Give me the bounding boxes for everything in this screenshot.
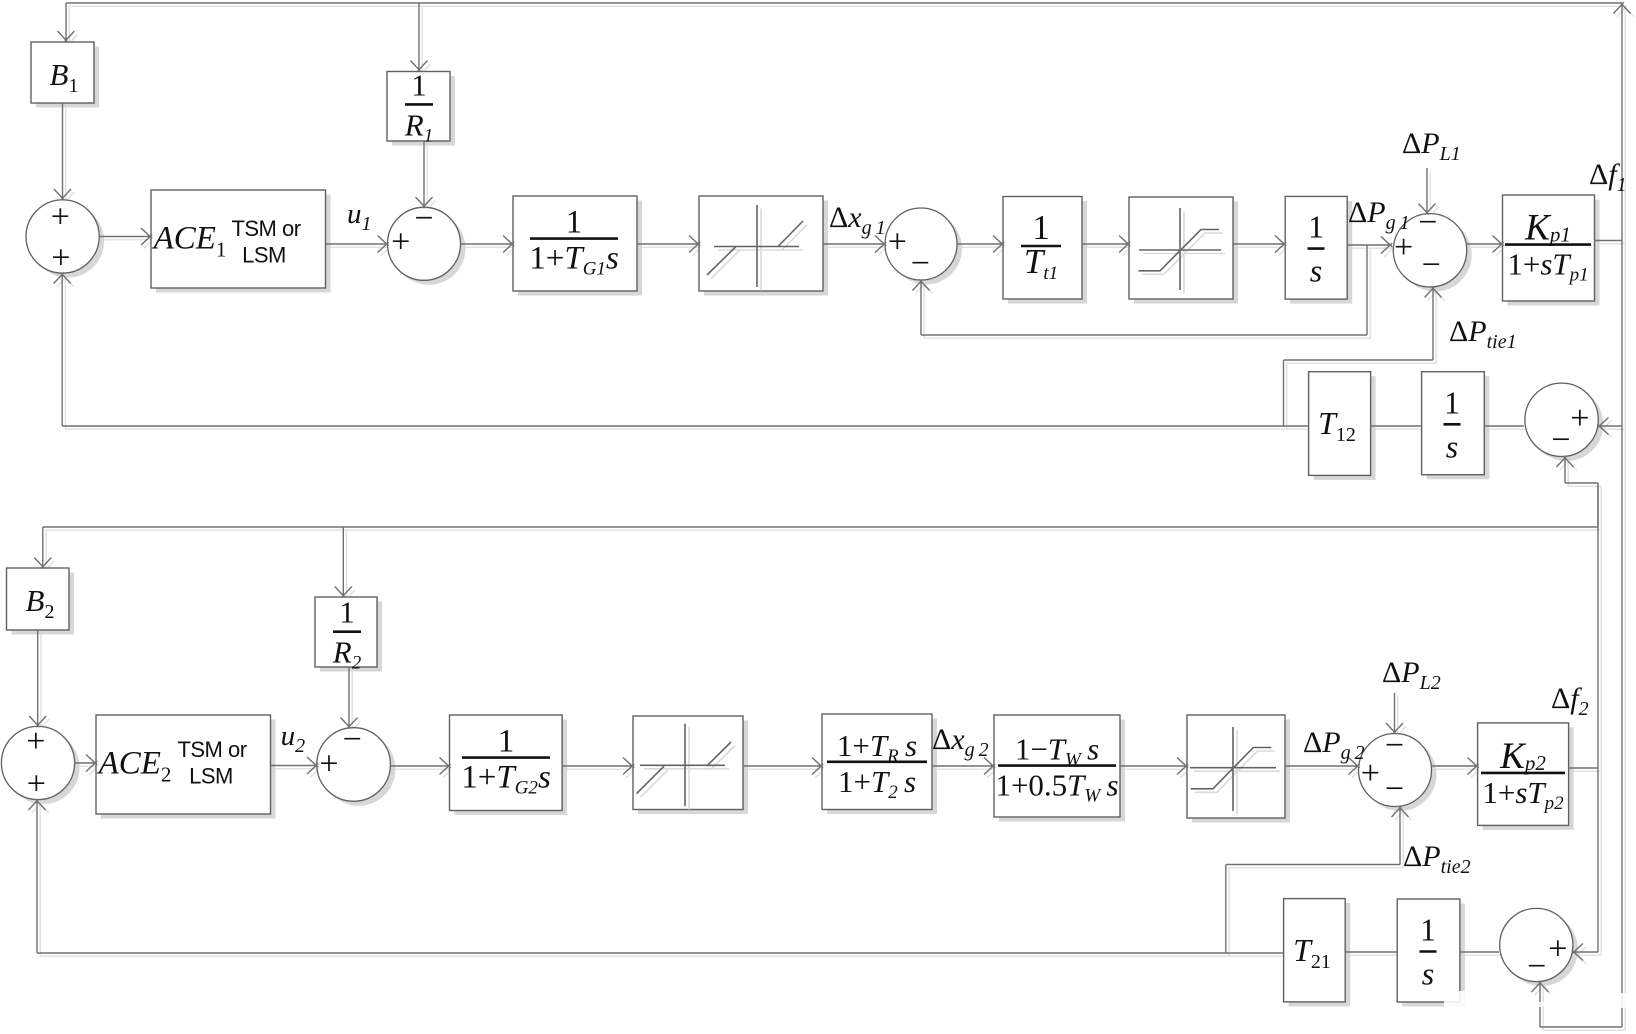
wire saturation2 to S8 (DPg2) — [1285, 758, 1360, 775]
wire S9 to integrator 1/s bottom — [1460, 951, 1499, 953]
wire deadzone to S3 (Dxg1) — [823, 236, 886, 253]
wire S3 to turbine 1/Tt1 — [957, 236, 1004, 253]
svg-text:−: − — [1551, 422, 1570, 459]
wire Df2 into S9 plus — [1572, 944, 1598, 961]
wire branch into 1/R2 — [335, 527, 352, 598]
block deadzone DZ2 — [633, 716, 743, 810]
svg-text:−: − — [911, 245, 930, 282]
svg-text:−: − — [343, 721, 362, 758]
wire governor2 to deadzone2 — [562, 758, 634, 775]
wire Df2 vertical right — [1597, 483, 1599, 952]
wire DPtie2 into S8 — [1226, 806, 1409, 953]
svg-text:Δxg 1: Δxg 1 — [829, 201, 886, 239]
block governor 1/(1+TG1s) — [513, 196, 637, 291]
svg-text:+: + — [27, 765, 46, 802]
wire DPL1 into S4 — [1419, 168, 1436, 215]
wire Df2 feedback top area2 — [43, 526, 1598, 528]
svg-text:ΔPg 2: ΔPg 2 — [1303, 726, 1365, 764]
svg-text:1: 1 — [498, 724, 515, 760]
wire ACE1 to S2 (u1) — [326, 236, 389, 253]
svg-text:1: 1 — [1420, 912, 1436, 948]
wire DPtie2 into S6 — [29, 799, 46, 953]
svg-text:1: 1 — [411, 67, 427, 102]
block 1/R1 — [387, 67, 450, 146]
svg-text:ΔPL2: ΔPL2 — [1382, 656, 1441, 694]
svg-text:s: s — [1310, 253, 1322, 289]
block B1 — [31, 42, 94, 103]
svg-text:Δf2: Δf2 — [1551, 682, 1589, 720]
summing junction S9 (Df2 - Df1) — [1500, 908, 1573, 985]
block ACE1 controller TSM or LSM — [151, 190, 326, 288]
summing junction S8 (DPg2 - DPL2 - DPtie2) — [1359, 727, 1432, 808]
wire S2 to governor block — [461, 236, 515, 253]
svg-text:1+TR​ s: 1+TR​ s — [837, 728, 917, 767]
wire ACE2 to S7 (u2) — [271, 757, 319, 774]
svg-text:−: − — [1385, 770, 1404, 807]
wire Kp2 output Df2 — [1569, 767, 1599, 769]
summing junction S7 (u2 - Df2/R2) — [317, 721, 391, 801]
svg-text:+: + — [1570, 400, 1589, 437]
svg-text:+: + — [26, 723, 45, 760]
block deadzone DZ1 — [699, 196, 823, 291]
wire DPL2 into S8 — [1386, 693, 1403, 734]
svg-text:1: 1 — [1308, 209, 1324, 245]
svg-text:Δf1: Δf1 — [1589, 158, 1627, 196]
wire Df1 into S5 plus — [1597, 418, 1622, 435]
wire integrator to S4 (DPg1) — [1347, 237, 1392, 254]
block ACE2 controller TSM or LSM — [96, 715, 271, 814]
wire B1 to sum S1 — [54, 103, 71, 200]
svg-text:−: − — [1422, 246, 1441, 283]
svg-text:u1: u1 — [347, 198, 372, 235]
wire S7 to governor2 — [391, 758, 451, 775]
wire 1/R1 to sum S2 — [416, 141, 433, 208]
svg-text:+: + — [51, 239, 70, 276]
wire Df1 vertical right — [1614, 2, 1631, 1027]
wire into B1 — [58, 3, 75, 42]
wire 1/Tt1 to saturation — [1082, 236, 1130, 253]
wire S1 to ACE1 — [99, 228, 152, 245]
svg-text:1: 1 — [339, 595, 355, 630]
watermark patches — [1444, 991, 1630, 1008]
svg-text:1−TW​ s: 1−TW​ s — [1015, 732, 1099, 771]
summing junction S3 (Dxg1 - rate fb) — [885, 208, 957, 282]
wire governor to deadzone — [637, 236, 700, 253]
wire T12 output to left — [62, 425, 1308, 427]
block B2 — [7, 568, 70, 630]
block integrator 1/s tie-line area1 — [1422, 372, 1485, 475]
wire S6 to ACE2 — [75, 755, 98, 772]
wire deadzone2 to reheat block — [743, 758, 823, 775]
wire S8 to Kp2 — [1432, 758, 1479, 775]
svg-text:+: + — [1548, 930, 1567, 967]
svg-text:1+TG1​s: 1+TG1​s — [529, 241, 619, 280]
wire branch into 1/R1 — [411, 3, 428, 72]
block integrator 1/s tie-line area2 — [1397, 899, 1460, 1002]
svg-text:ACE1: ACE1 — [152, 221, 227, 262]
wire Df2 into S5 minus — [1557, 456, 1599, 527]
svg-text:+: + — [888, 223, 907, 260]
block integrator 1/s area1 — [1285, 196, 1347, 299]
svg-text:1+0.5TW​ s: 1+0.5TW​ s — [995, 768, 1118, 807]
wire 1/s mid to T12 — [1371, 425, 1422, 427]
block T12 — [1309, 372, 1371, 476]
block hydro (1-TWs)/(1+0.5TWs) — [994, 715, 1120, 817]
summing junction S2 (u1 - Df1/R1) — [388, 200, 461, 281]
block 1/R2 — [315, 595, 377, 674]
svg-text:s: s — [1446, 428, 1458, 464]
svg-text:−: − — [1418, 204, 1437, 241]
block power system Kp2/(1+sTp2) — [1478, 723, 1569, 826]
wire DPtie1 into S1 — [54, 272, 71, 426]
svg-text:TSM or: TSM or — [177, 737, 246, 762]
svg-text:ΔPtie2: ΔPtie2 — [1403, 840, 1471, 878]
svg-text:1+T2​ s: 1+T2​ s — [838, 764, 916, 803]
svg-text:ΔPg 1: ΔPg 1 — [1348, 196, 1410, 234]
svg-text:−: − — [1527, 948, 1546, 985]
wire S4 to Kp1 — [1466, 236, 1504, 253]
wire DPtie1 into S4 — [1284, 286, 1442, 426]
svg-text:1: 1 — [1444, 384, 1460, 420]
summing junction S4 (DPg1 - DPL1 - DPtie1) — [1393, 204, 1466, 287]
svg-text:LSM: LSM — [242, 243, 286, 268]
svg-text:LSM: LSM — [189, 764, 233, 789]
svg-text:u2: u2 — [281, 720, 306, 757]
wire S5 to integrator 1/s mid — [1484, 425, 1524, 427]
block power system Kp1/(1+sTp1) — [1503, 195, 1595, 301]
summing junction S6 (B2*Df2 + DPtie2) — [1, 723, 74, 802]
wire T21 output to left — [37, 952, 1284, 954]
wire reheat to hydro block (Dxg2) — [932, 758, 995, 775]
wire 1/s bottom to T21 — [1345, 951, 1397, 953]
svg-text:ACE2: ACE2 — [97, 746, 172, 787]
svg-text:+: + — [391, 224, 410, 261]
wire 1/R2 to sum S7 — [341, 667, 358, 729]
svg-text:ΔPL1: ΔPL1 — [1402, 127, 1461, 165]
block T21 — [1284, 899, 1346, 1002]
svg-text:+: + — [51, 198, 70, 235]
svg-text:s: s — [1422, 956, 1434, 992]
svg-text:+: + — [319, 745, 338, 782]
svg-text:Δxg 2: Δxg 2 — [932, 723, 989, 761]
block saturation SAT1 — [1129, 197, 1233, 299]
wire saturation to integrator — [1233, 236, 1286, 253]
block reheat (1+TRs)/(1+T2s) — [822, 714, 932, 810]
wire Kp1 output Df1 — [1594, 240, 1622, 242]
svg-text:ΔPtie1: ΔPtie1 — [1449, 315, 1517, 353]
wire B2 to sum S6 — [29, 630, 46, 727]
wire into B2 — [34, 527, 51, 569]
block governor2 1/(1+TG2s) — [450, 715, 563, 811]
wire rate feedback to S3 — [913, 245, 1368, 335]
svg-text:TSM or: TSM or — [231, 216, 300, 241]
svg-text:1+TG2​s: 1+TG2​s — [461, 760, 551, 799]
svg-text:+: + — [1394, 229, 1413, 266]
wire Df1 feedback top — [66, 2, 1622, 4]
summing junction S1 (B1*Df1 + DPtie1) — [26, 198, 99, 276]
summing junction S5 (Df1 - Df2) — [1525, 383, 1598, 458]
wire hydro to saturation2 — [1120, 758, 1188, 775]
svg-text:1: 1 — [566, 205, 583, 241]
block saturation SAT2 — [1187, 715, 1285, 818]
block turbine 1/Tt1 — [1003, 197, 1082, 300]
wire Df1 into S9 minus — [1532, 981, 1623, 1027]
